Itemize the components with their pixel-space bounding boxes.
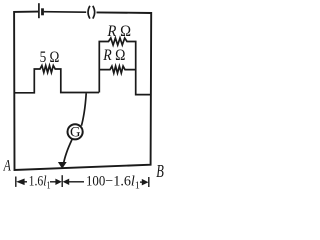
svg-text:G: G [70,125,81,141]
svg-text:R Ω: R Ω [106,23,131,40]
svg-text:A: A [3,158,11,175]
svg-text:B: B [156,161,164,181]
svg-text:R Ω: R Ω [102,47,125,64]
svg-text:−1.6l1: −1.6l1 [105,174,140,192]
svg-text:100: 100 [86,174,105,190]
svg-text:5 Ω: 5 Ω [40,49,60,66]
svg-text:1.6l1: 1.6l1 [29,174,51,192]
